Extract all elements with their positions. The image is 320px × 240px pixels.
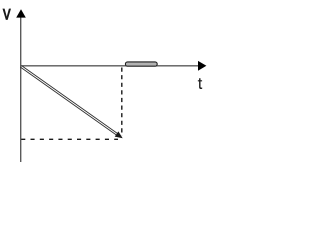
V axis arrowhead (16, 9, 26, 17)
dashed horizontal line at ramp minimum (21, 138, 118, 140)
V axis (vertical line) (20, 14, 22, 162)
ramp arrow (double-line shaft) (20, 66, 117, 136)
t axis arrowhead (198, 61, 206, 71)
dashed vertical line at ramp end (121, 68, 123, 137)
axis label V (3, 9, 12, 20)
axis label t (198, 78, 202, 89)
ramp arrowhead (115, 131, 123, 138)
flat-segment bar on axis (V=0 interval) (125, 62, 157, 66)
t axis (horizontal line) (21, 65, 199, 67)
